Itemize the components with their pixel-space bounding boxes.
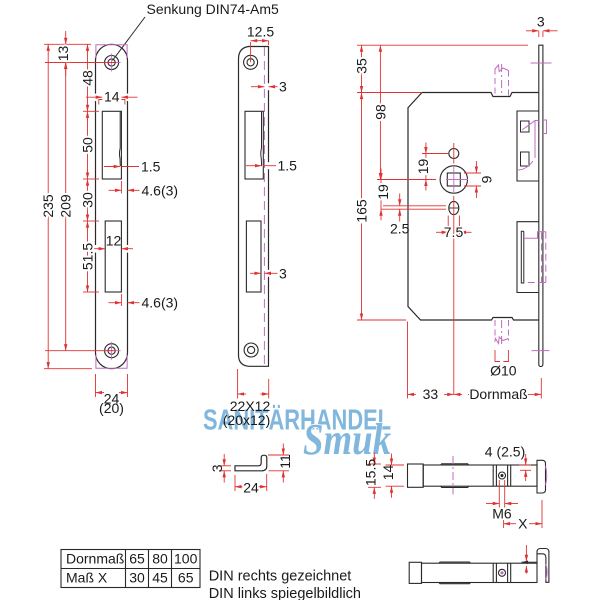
- dim 24 bottom: [95, 374, 97, 397]
- bottom hole crosshair: [103, 342, 121, 360]
- dim 235 line: [47, 44, 49, 368]
- svg-text:209: 209: [58, 194, 74, 218]
- cap magenta arc: [546, 466, 547, 485]
- tab red arrows: [525, 545, 527, 574]
- latch bolt edge inside cutout: [118, 112, 121, 166]
- white line breaks at dim crossings view2: [267, 83, 270, 277]
- svg-text:3: 3: [279, 79, 287, 95]
- svg-text:9: 9: [479, 175, 495, 183]
- upper latch pocket: [517, 111, 539, 181]
- svg-text:DIN rechts gezeichnet: DIN rechts gezeichnet: [209, 569, 352, 585]
- svg-text:Smuk: Smuk: [303, 415, 391, 464]
- view3 dimension texts: [354, 14, 545, 403]
- svg-text:235: 235: [40, 194, 56, 218]
- svg-text:DIN links spiegelbildlich: DIN links spiegelbildlich: [209, 586, 361, 600]
- spindle2 left sleeve: [409, 562, 421, 583]
- spindle end cap: [537, 460, 546, 493]
- spindle2 nut lines: [493, 563, 511, 582]
- follower crosshair: [446, 167, 468, 192]
- view1 dimension texts: [40, 46, 178, 416]
- faceplate strip of lock: [539, 45, 543, 366]
- dim 12.5: [251, 40, 269, 42]
- svg-text:X: X: [518, 515, 528, 531]
- spindle side view: [408, 460, 546, 493]
- svg-text:3: 3: [209, 464, 225, 472]
- svg-text:(20x12): (20x12): [223, 412, 270, 428]
- dim 3 lower: [250, 272, 261, 274]
- L-profile texts: [209, 454, 293, 495]
- side view deadbolt cutout: [246, 221, 261, 292]
- svg-text:100: 100: [174, 551, 198, 567]
- dim 9: [464, 172, 481, 174]
- svg-text:11: 11: [277, 454, 293, 469]
- dim 14: [386, 464, 405, 466]
- red dimensioning for view1: [44, 31, 140, 397]
- faceplate front view outline: [96, 44, 128, 368]
- deadbolt tail bar: [521, 231, 524, 283]
- spindle dims: [368, 453, 542, 529]
- spindle bar: [423, 465, 537, 486]
- svg-text:Maß X: Maß X: [66, 570, 108, 586]
- dim 2.5 arrows: [399, 194, 401, 206]
- hidden cylinder guide top (magenta): [495, 64, 509, 96]
- dim 1.5 leader: [104, 166, 120, 168]
- white line breaks at dim crossings: [96, 94, 129, 253]
- ext line top (y=45.2): [357, 44, 528, 46]
- dim 24: [234, 475, 236, 491]
- ext line plate bottom: [44, 368, 92, 370]
- svg-text:65: 65: [178, 570, 194, 586]
- lower deadbolt pocket: [517, 222, 539, 293]
- svg-text:Senkung DIN74-Am5: Senkung DIN74-Am5: [147, 1, 280, 17]
- dim 1.5 side: [246, 165, 261, 167]
- bent tab end: [537, 549, 549, 583]
- L-profile cross-section: [235, 455, 267, 471]
- dim 4.6(3) upper: [120, 181, 122, 194]
- table grid: [61, 550, 200, 588]
- svg-text:98: 98: [372, 104, 388, 120]
- ext line plate top: [44, 43, 91, 45]
- L-profile dims: [219, 444, 289, 492]
- leader line to countersunk hole: [113, 17, 146, 61]
- dim 15.5: [368, 463, 381, 465]
- M6 hole magenta center: [500, 571, 503, 574]
- dim 35: [361, 45, 363, 92]
- dim 19 upper: [425, 154, 427, 180]
- table texts: [66, 551, 198, 586]
- svg-text:3: 3: [537, 14, 545, 30]
- magenta tick top of strip: [531, 62, 552, 64]
- top hole crosshair: [103, 54, 121, 72]
- svg-text:1.5: 1.5: [141, 159, 161, 175]
- dim 209 line: [65, 63, 67, 351]
- follower square 9mm: [447, 173, 460, 186]
- red dimensioning for view2: [238, 41, 278, 399]
- red centerlines of lock: [377, 143, 454, 394]
- dim 22X12 bottom: [237, 369, 239, 399]
- follower circle: [440, 166, 467, 193]
- svg-text:24: 24: [243, 480, 259, 496]
- upper small hole: [449, 149, 459, 159]
- DIN note lines: [209, 569, 361, 600]
- faceplate side view outline: [239, 47, 269, 367]
- side latch bolt edge: [260, 112, 263, 166]
- svg-text:4 (2.5): 4 (2.5): [485, 444, 525, 460]
- hidden latch bolt (magenta): [518, 120, 547, 170]
- side view latch cutout: [245, 111, 263, 179]
- chain ext ticks: [83, 110, 99, 112]
- lower oblong hole: [449, 201, 459, 214]
- spindle left sleeve: [408, 464, 424, 487]
- svg-text:45: 45: [152, 570, 168, 586]
- svg-text:35: 35: [354, 58, 370, 74]
- view2 dimension texts: [223, 23, 297, 428]
- spindle top view: [409, 549, 549, 584]
- dim 3 strip top: [526, 30, 539, 32]
- svg-text:M6: M6: [492, 506, 512, 522]
- ext lines 2.5 pair: [383, 205, 446, 207]
- dim 7.5: [447, 216, 449, 237]
- spindle texts: [362, 444, 528, 532]
- ext line top hole center: [45, 62, 116, 64]
- svg-text:19: 19: [415, 159, 431, 175]
- hidden deadbolt (magenta): [524, 232, 546, 283]
- tab magenta arc: [546, 564, 547, 580]
- svg-text:48: 48: [80, 70, 96, 86]
- svg-text:2.5: 2.5: [390, 221, 410, 237]
- dim 19 lower: [380, 180, 382, 210]
- spindle centerline magenta: [452, 456, 454, 495]
- chain dim line 48/50/30/51.5: [87, 44, 89, 111]
- svg-text:Ø10: Ø10: [490, 363, 517, 379]
- side view bottom hole: [244, 343, 258, 357]
- dim 165: [361, 93, 363, 321]
- dim 3 thickness: [219, 465, 231, 467]
- hidden square corners (top): [96, 45, 127, 368]
- svg-text:12: 12: [106, 233, 122, 249]
- ext line case bottom: [357, 319, 406, 321]
- svg-text:30: 30: [80, 192, 96, 208]
- svg-text:4.6(3): 4.6(3): [142, 295, 179, 311]
- dim 11: [268, 454, 289, 456]
- svg-text:15.5: 15.5: [362, 459, 378, 486]
- svg-text:7.5: 7.5: [444, 224, 464, 240]
- spindle middle section: [441, 464, 469, 488]
- spindle2 bar: [422, 563, 538, 582]
- svg-text:80: 80: [152, 551, 168, 567]
- svg-text:65: 65: [129, 551, 145, 567]
- svg-text:12.5: 12.5: [247, 23, 274, 39]
- lock case outline: [408, 93, 539, 321]
- svg-text:19: 19: [375, 184, 391, 200]
- M6 hole view2: [499, 569, 506, 576]
- svg-text:Dornmaß: Dornmaß: [66, 551, 124, 567]
- svg-text:4.6(3): 4.6(3): [142, 182, 179, 198]
- dim 14 arrows and corner ticks: [86, 96, 102, 98]
- latch cutout: [102, 111, 121, 179]
- tab black leader with arrow: [522, 561, 538, 563]
- svg-text:1.5: 1.5: [278, 158, 298, 174]
- svg-text:13: 13: [55, 46, 71, 62]
- dim 4 (2.5): [519, 464, 531, 466]
- bottom screw hole: [105, 344, 119, 358]
- dim 13 arrows: [65, 31, 67, 44]
- dim Oe10 bracket: [495, 350, 508, 362]
- svg-text:33: 33: [423, 386, 439, 402]
- latch guide block A: [521, 121, 530, 132]
- deadbolt cutout: [105, 221, 121, 292]
- svg-text:Dornmaß: Dornmaß: [469, 386, 527, 402]
- dim M6 leaders: [498, 480, 500, 508]
- spindle nut lines: [493, 465, 511, 486]
- svg-text:(20): (20): [99, 400, 124, 416]
- svg-text:51.5: 51.5: [80, 243, 96, 270]
- oblong chord: [449, 207, 459, 209]
- dim 4.6(3) lower: [120, 294, 122, 306]
- svg-text:14: 14: [380, 465, 396, 481]
- side view top hole: [244, 55, 258, 69]
- svg-text:14: 14: [104, 89, 120, 105]
- latch guide block B: [521, 152, 530, 166]
- svg-text:3: 3: [279, 265, 287, 281]
- spindle2 middle section: [439, 562, 470, 584]
- ext line bottom hole center: [45, 350, 116, 352]
- hidden inner face dashed line: [263, 47, 265, 366]
- red dimensioning for view3: [357, 31, 558, 399]
- ext line case top: [357, 92, 422, 94]
- svg-text:30: 30: [129, 570, 145, 586]
- dim 3 upper: [251, 86, 264, 88]
- svg-text:50: 50: [80, 137, 96, 153]
- dim X: [503, 509, 505, 528]
- svg-text:165: 165: [354, 199, 370, 223]
- M6 screw hole: [499, 472, 506, 479]
- magenta tick bottom of strip: [532, 350, 550, 352]
- hidden cylinder guide bottom (magenta): [495, 320, 509, 345]
- top screw hole: [105, 56, 119, 70]
- dim 33 / Dornmass baseline: [407, 322, 409, 399]
- dim 12 arrows: [94, 248, 106, 250]
- dim 98: [379, 45, 381, 179]
